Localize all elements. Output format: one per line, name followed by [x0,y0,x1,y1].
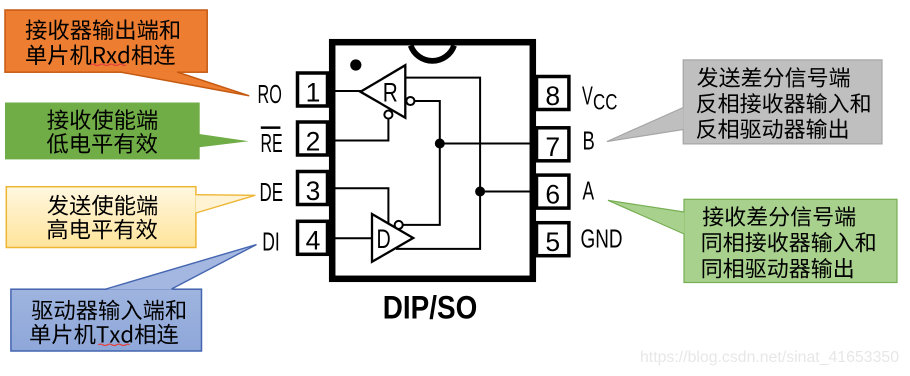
wire stub to pin 7 (B) [440,143,537,145]
svg-text:7: 7 [545,132,560,162]
svg-text:B: B [583,128,595,156]
svg-text:4: 4 [306,226,321,256]
IC body (DIP/SO package outline) [332,42,533,279]
svg-text:6: 6 [545,179,560,209]
receiver amp R [361,65,406,118]
text 同相接收器输入和 [703,232,875,252]
text 单片机Txd相连 [30,324,178,345]
text 反相驱动器输出 [697,119,848,139]
junction node on net A [475,187,485,197]
svg-text:1: 1 [306,77,321,107]
svg-text:R: R [383,77,398,107]
svg-text:8: 8 [545,81,560,111]
text 驱动器输入端和 [32,300,185,321]
wire net A: receiver noninverting input to driver output [396,78,480,249]
svg-text:DI: DI [262,228,280,256]
callout tail to DE [196,195,256,213]
text 单片机Rxd相连 [26,45,175,66]
text 接收使能端 [47,109,157,130]
callout box: RE annotation (green) [6,103,249,159]
callout tail to B [607,108,684,142]
svg-text:CC: CC [593,89,617,114]
callout box: B annotation (gray) [607,60,882,144]
pin label VCC [582,83,617,115]
junction node on net B [435,139,445,149]
text 高电平有效 [48,219,158,240]
callout box: DE annotation (yellow) [6,187,255,248]
svg-text:RE: RE [261,130,283,158]
svg-text:5: 5 [545,227,560,257]
spellcheck squiggle under Txd [98,344,129,345]
text 发送使能端 [48,195,158,216]
driver buffer D [372,214,413,262]
pin 5 box [537,223,569,257]
pin label RE (active low) [261,126,283,158]
callout box: DI annotation (blue) [11,245,257,352]
callout box: A annotation (light green) [608,199,897,282]
svg-text:2: 2 [306,126,321,156]
wire pin1 RO to receiver output [310,90,363,92]
svg-text:GND: GND [581,225,623,253]
pin 4 box [298,221,328,255]
svg-text:RO: RO [258,81,282,109]
wire pin4 DI to driver input [310,237,373,239]
callout tail to A [608,200,684,234]
wire pin3 DE to driver enable [310,188,388,225]
callout tail to RO [120,72,249,96]
text 反相接收器输入和 [697,93,870,113]
pin 3 box [298,172,328,206]
pin 2 box [298,122,328,156]
callout box: RO annotation (orange) [5,10,249,96]
text 低电平有效 [47,133,157,154]
wire net B: receiver inverting input to driver inverting output [402,101,439,225]
svg-text:https://blog.csdn.net/sinat_41: https://blog.csdn.net/sinat_41653350 [640,349,899,366]
svg-text:A: A [583,178,595,206]
svg-text:3: 3 [306,176,321,206]
pin 6 box [537,175,569,209]
wire pin2 RE to receiver enable bubble [310,118,388,140]
text 接收差分信号端 [703,206,856,226]
pin 1 box [298,73,328,107]
svg-text:V: V [582,83,593,111]
pin 8 box [537,77,569,111]
pin-1 index dot [350,59,361,70]
text 发送差分信号端 [697,67,849,87]
receiver inverting input bubble (B) [406,97,414,105]
svg-text:DE: DE [260,179,284,207]
text 同相驱动器输出 [703,258,853,278]
svg-text:DIP/SO: DIP/SO [383,289,478,325]
spellcheck squiggle under Rxd [91,64,127,65]
notch (package orientation mark) [411,46,454,61]
callout tail to DI [106,245,257,290]
callout tail to RE [199,134,249,148]
pin 7 box [537,128,569,162]
text 接收器输出端和 [26,19,179,40]
driver inverting output bubble (B) [395,221,403,229]
svg-text:D: D [377,224,391,254]
wire stub to pin 6 (A) [480,191,537,193]
receiver enable bubble (RE, active low) [384,111,392,119]
